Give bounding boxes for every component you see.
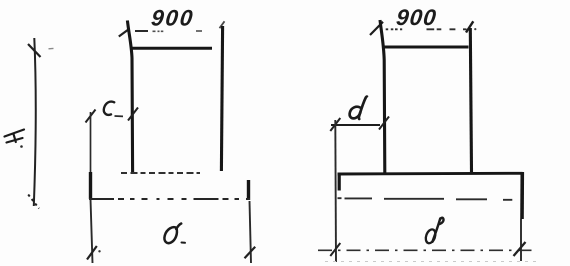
- svg-text:900: 900: [150, 5, 196, 30]
- svg-text:900: 900: [395, 5, 438, 30]
